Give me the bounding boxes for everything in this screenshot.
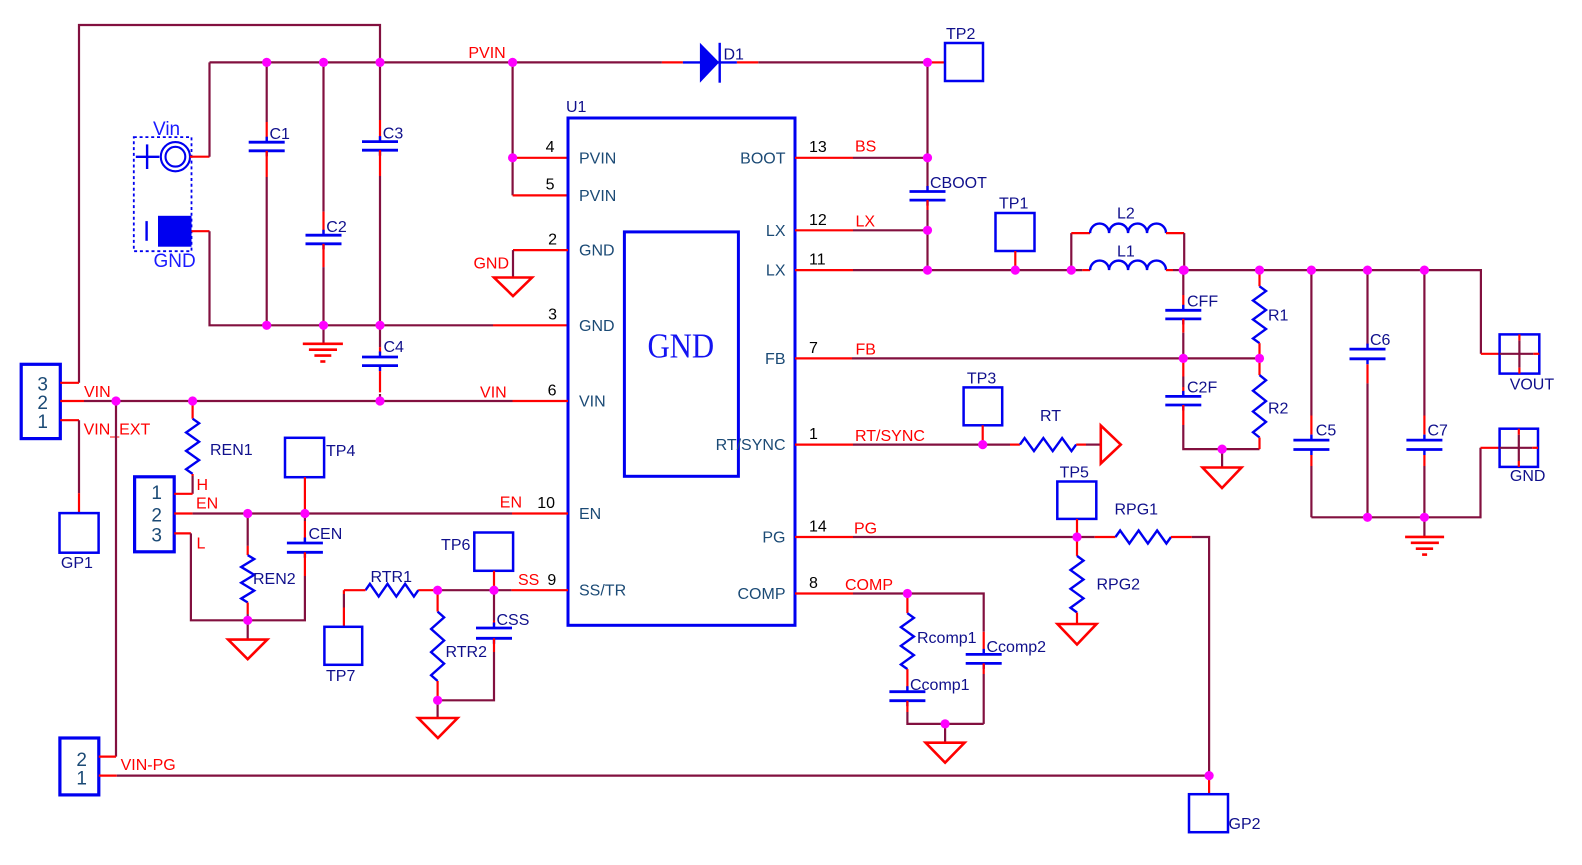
svg-text:1: 1 bbox=[37, 412, 48, 433]
svg-text:U1: U1 bbox=[566, 99, 587, 116]
svg-text:TP3: TP3 bbox=[967, 371, 996, 388]
svg-text:12: 12 bbox=[809, 212, 827, 229]
resistor RTR2 bbox=[437, 590, 439, 611]
wire Vin+ to PVIN bbox=[208, 62, 210, 156]
svg-text:5: 5 bbox=[546, 177, 555, 194]
svg-text:Vin: Vin bbox=[153, 119, 180, 140]
junction (266.7,325.3) bbox=[262, 321, 271, 330]
wire COMP to Ccomp2 branch bbox=[907, 594, 983, 632]
wire pin3 to outer loop bbox=[60, 382, 79, 384]
junction (927.5,157.8) bbox=[923, 153, 932, 162]
svg-text:8: 8 bbox=[809, 575, 818, 592]
svg-text:GND: GND bbox=[473, 256, 509, 273]
connector VIN-PG 2-pin bbox=[60, 738, 99, 795]
svg-text:TP5: TP5 bbox=[1060, 465, 1089, 482]
svg-text:COMP: COMP bbox=[738, 586, 786, 603]
wire Vin+ stub bbox=[190, 156, 210, 158]
pin 10 EN stub + label bbox=[512, 512, 568, 514]
svg-text:GND: GND bbox=[647, 328, 714, 366]
svg-text:C1: C1 bbox=[270, 126, 291, 143]
ground triangle under REN2 bbox=[247, 620, 249, 639]
junction (247.7,620.3) bbox=[243, 616, 252, 625]
wire Vin- down to gnd rail bbox=[210, 231, 494, 325]
wire RTR1 left to TP7 bbox=[343, 590, 345, 594]
Vin plus terminal bbox=[136, 156, 160, 158]
svg-text:VIN: VIN bbox=[84, 384, 111, 401]
pin 12 LX stub + net bbox=[795, 229, 853, 231]
svg-text:Ccomp2: Ccomp2 bbox=[987, 639, 1047, 656]
svg-text:1: 1 bbox=[809, 426, 818, 443]
capacitor Ccomp2 bbox=[983, 632, 985, 655]
svg-text:CEN: CEN bbox=[309, 526, 343, 543]
wire VOUT main rail bbox=[1184, 270, 1481, 354]
wire pin3 L to bottom rail bbox=[174, 532, 191, 534]
svg-text:C2F: C2F bbox=[1187, 380, 1217, 397]
svg-text:GP2: GP2 bbox=[1229, 816, 1261, 833]
svg-text:COMP: COMP bbox=[845, 577, 893, 594]
svg-text:14: 14 bbox=[809, 519, 827, 536]
capacitor C4 bbox=[379, 325, 381, 347]
junction (380,401) bbox=[375, 396, 384, 405]
wire top outer loop bbox=[79, 25, 380, 383]
svg-text:PG: PG bbox=[762, 530, 785, 547]
capacitor CBOOT bbox=[926, 158, 928, 187]
junction (494,590.2) bbox=[489, 586, 498, 595]
svg-text:FB: FB bbox=[765, 351, 785, 368]
connector EN 3-pin bbox=[135, 477, 175, 552]
svg-text:R1: R1 bbox=[1268, 308, 1289, 325]
svg-text:TP2: TP2 bbox=[946, 26, 975, 43]
junction (1424.4,517.3) bbox=[1420, 513, 1429, 522]
wire Vin- stub bbox=[192, 230, 210, 232]
svg-text:RPG2: RPG2 bbox=[1097, 577, 1141, 594]
svg-text:LX: LX bbox=[856, 214, 876, 231]
svg-text:4: 4 bbox=[546, 139, 555, 156]
pin 14 PG stub + net bbox=[795, 536, 853, 538]
wire VIN-PG line bbox=[99, 774, 117, 776]
testpoint GP1 bbox=[60, 513, 99, 553]
ground earth under C2 bbox=[322, 325, 324, 344]
svg-text:RT: RT bbox=[1040, 408, 1061, 425]
junction (1259.5,358.4) bbox=[1255, 354, 1264, 363]
svg-text:VIN-PG: VIN-PG bbox=[121, 757, 176, 774]
capacitor C7 bbox=[1423, 270, 1425, 415]
svg-text:2: 2 bbox=[548, 232, 557, 249]
pin 1 RT/SYNC stub + net bbox=[795, 444, 853, 446]
wire pin4 stub bbox=[513, 157, 568, 159]
wire VIN to VIN-PG vertical bbox=[115, 401, 117, 757]
svg-text:TP6: TP6 bbox=[441, 537, 470, 554]
wire vertical to pins 4/5 bbox=[511, 62, 513, 195]
svg-text:6: 6 bbox=[548, 382, 557, 399]
junction (380,62.4) bbox=[375, 58, 384, 67]
junction (982.7,444.6) bbox=[978, 440, 987, 449]
svg-text:C5: C5 bbox=[1316, 423, 1337, 440]
svg-text:C2: C2 bbox=[326, 219, 347, 236]
wire pin1 VIN_EXT to GP1 bbox=[60, 419, 79, 421]
resistor RT bbox=[1010, 444, 1020, 446]
junction (512.6,157.8) bbox=[508, 153, 517, 162]
junction (1071.3,270.1) bbox=[1067, 266, 1076, 275]
pin 7 FB stub + net bbox=[795, 357, 852, 359]
junction (1424.4,270.1) bbox=[1420, 266, 1429, 275]
svg-text:PVIN: PVIN bbox=[579, 188, 616, 205]
resistor RTR1 bbox=[418, 589, 437, 591]
svg-text:9: 9 bbox=[547, 572, 556, 589]
pin 11 LX stub + wire to inductors bbox=[795, 269, 853, 271]
junction (945.1,723.9) bbox=[941, 719, 950, 728]
svg-text:FB: FB bbox=[856, 341, 876, 358]
svg-text:REN1: REN1 bbox=[210, 442, 253, 459]
wire PVIN rail bbox=[210, 61, 662, 63]
junction (116,401) bbox=[111, 396, 120, 405]
U1 inner GND box bbox=[624, 232, 738, 476]
junction (380,325.3) bbox=[375, 321, 384, 330]
svg-text:EN: EN bbox=[579, 506, 601, 523]
capacitor C6 bbox=[1366, 270, 1368, 343]
svg-text:H: H bbox=[197, 477, 209, 494]
capacitor C2F bbox=[1182, 358, 1184, 376]
resistor RPG1 bbox=[1095, 536, 1116, 538]
svg-text:C3: C3 bbox=[383, 126, 404, 143]
junction (1077,537) bbox=[1072, 532, 1081, 541]
connector GND output bbox=[1481, 447, 1500, 449]
svg-text:GND: GND bbox=[1510, 468, 1546, 485]
svg-text:PVIN: PVIN bbox=[468, 45, 505, 62]
svg-text:TP1: TP1 bbox=[999, 196, 1028, 213]
svg-text:3: 3 bbox=[151, 526, 162, 547]
ground earth under C7 bbox=[1423, 517, 1425, 537]
svg-text:D1: D1 bbox=[724, 46, 745, 63]
wire TP2 junction down to BOOT bbox=[926, 62, 928, 157]
svg-text:11: 11 bbox=[809, 252, 826, 269]
ground triangle under comp rail bbox=[944, 724, 946, 742]
junction (927.5,270.1) bbox=[923, 266, 932, 275]
net arrow RT/SYNC off-page bbox=[1101, 426, 1121, 464]
svg-text:BS: BS bbox=[855, 139, 876, 156]
svg-text:GND: GND bbox=[579, 318, 615, 335]
svg-text:GND: GND bbox=[579, 243, 615, 260]
resistor R1 bbox=[1258, 270, 1260, 286]
connector J Vin port dotted box bbox=[134, 137, 192, 251]
svg-text:RT/SYNC: RT/SYNC bbox=[855, 428, 925, 445]
junction (1183.3,270.1) bbox=[1179, 266, 1188, 275]
junction (512.6,62.4) bbox=[508, 58, 517, 67]
junction (304.9,513.5) bbox=[300, 509, 309, 518]
wire output ground rail bbox=[1311, 448, 1480, 518]
capacitor CSS bbox=[493, 590, 495, 620]
inductor L1 bbox=[1082, 269, 1090, 271]
junction (907.4,593.5) bbox=[903, 589, 912, 598]
svg-text:LX: LX bbox=[766, 223, 786, 240]
svg-text:GND: GND bbox=[154, 251, 196, 272]
testpoint TP7 bbox=[324, 627, 362, 665]
capacitor Ccomp1 bbox=[906, 686, 908, 692]
svg-text:CBOOT: CBOOT bbox=[930, 175, 987, 192]
wire LX12 to LX11 bbox=[926, 230, 928, 270]
svg-text:10: 10 bbox=[537, 495, 555, 512]
ground triangle under C2F rail bbox=[1221, 449, 1223, 467]
ground triangle at pin2 bbox=[494, 278, 532, 297]
svg-text:C4: C4 bbox=[384, 339, 405, 356]
svg-text:Ccomp1: Ccomp1 bbox=[910, 677, 970, 694]
junction (247.7,513.5) bbox=[243, 509, 252, 518]
testpoint TP3 bbox=[964, 387, 1003, 425]
svg-text:1: 1 bbox=[76, 769, 87, 790]
junction (192.6,401) bbox=[188, 396, 197, 405]
wire pin3 stub red bbox=[493, 324, 568, 326]
capacitor C3 bbox=[379, 62, 381, 120]
capacitor C2 bbox=[322, 62, 324, 211]
resistor REN2 bbox=[247, 514, 249, 546]
capacitor CEN bbox=[304, 514, 306, 522]
wire VIN line bbox=[60, 400, 84, 402]
junction (266.7,62.4) bbox=[262, 58, 271, 67]
junction (1222.1,449.1) bbox=[1218, 445, 1227, 454]
svg-text:7: 7 bbox=[809, 340, 818, 357]
svg-text:L2: L2 bbox=[1117, 206, 1135, 223]
svg-text:SS/TR: SS/TR bbox=[579, 583, 626, 600]
svg-text:VIN: VIN bbox=[480, 384, 507, 401]
junction (927.5,230.3) bbox=[923, 226, 932, 235]
testpoint TP1 bbox=[996, 213, 1035, 251]
junction (1209.1,775.6) bbox=[1205, 771, 1214, 780]
op-amp U1 ic body bbox=[568, 118, 795, 625]
svg-text:SS: SS bbox=[518, 572, 539, 589]
Vin minus terminal bbox=[145, 221, 147, 241]
svg-text:13: 13 bbox=[809, 139, 827, 156]
pin 2 GND net stub bbox=[513, 249, 568, 251]
resistor REN1 bbox=[192, 401, 194, 419]
resistor Rcomp1 bbox=[906, 594, 908, 614]
svg-text:EN: EN bbox=[196, 496, 218, 513]
svg-text:RT/SYNC: RT/SYNC bbox=[716, 437, 786, 454]
pin 13 BOOT stub + BS net bbox=[795, 157, 853, 159]
svg-text:TP4: TP4 bbox=[326, 443, 355, 460]
wire pin1 H stub bbox=[174, 493, 192, 495]
svg-text:Rcomp1: Rcomp1 bbox=[917, 630, 977, 647]
svg-text:PVIN: PVIN bbox=[579, 150, 616, 167]
svg-text:REN2: REN2 bbox=[253, 571, 296, 588]
connector VIN 3-pin bbox=[21, 364, 60, 438]
junction (1311.4,270.1) bbox=[1307, 266, 1316, 275]
capacitor C5 bbox=[1310, 270, 1312, 415]
svg-text:3: 3 bbox=[548, 307, 557, 324]
resistor R2 bbox=[1258, 358, 1260, 375]
junction (1183.3,358.4) bbox=[1179, 354, 1188, 363]
capacitor CFF bbox=[1182, 270, 1184, 295]
pin 8 COMP stub + net bbox=[795, 592, 853, 594]
wire EN line bbox=[174, 512, 192, 514]
junction (437.6,590.2) bbox=[433, 586, 442, 595]
junction (1367.5,517.3) bbox=[1363, 513, 1372, 522]
svg-text:EN: EN bbox=[500, 495, 522, 512]
svg-text:CSS: CSS bbox=[497, 612, 530, 629]
svg-text:L1: L1 bbox=[1117, 244, 1135, 261]
svg-text:L: L bbox=[197, 536, 206, 553]
svg-text:C6: C6 bbox=[1370, 332, 1391, 349]
wire pin5 stub bbox=[513, 194, 568, 196]
junction (1015.3,270.1) bbox=[1011, 266, 1020, 275]
ground triangle under RPG2 bbox=[1058, 624, 1097, 645]
testpoint TP2 bbox=[931, 61, 945, 63]
inductor L2 parallel branch bbox=[1070, 233, 1072, 270]
svg-text:TP7: TP7 bbox=[326, 668, 355, 685]
testpoint GP2 bbox=[1208, 776, 1210, 795]
connector VOUT bbox=[1481, 353, 1500, 355]
resistor RPG2 bbox=[1076, 537, 1078, 556]
svg-text:RTR2: RTR2 bbox=[446, 644, 488, 661]
capacitor C1 bbox=[266, 62, 268, 122]
svg-text:PG: PG bbox=[854, 521, 877, 538]
junction (323.5,62.4) bbox=[319, 58, 328, 67]
svg-text:C7: C7 bbox=[1428, 423, 1449, 440]
testpoint TP4 bbox=[285, 438, 324, 477]
diode D1 bbox=[662, 61, 683, 63]
svg-text:CFF: CFF bbox=[1187, 294, 1218, 311]
svg-text:RTR1: RTR1 bbox=[371, 569, 413, 586]
svg-text:1: 1 bbox=[151, 483, 162, 504]
junction (437.6,700.3) bbox=[433, 696, 442, 705]
svg-text:VOUT: VOUT bbox=[1510, 377, 1555, 394]
wire RPG1 to VIN-PG bbox=[1192, 537, 1209, 776]
junction (1184.2,270.1) bbox=[1180, 266, 1189, 275]
svg-text:LX: LX bbox=[766, 263, 786, 280]
junction (1259.5,270.1) bbox=[1255, 266, 1264, 275]
svg-text:GP1: GP1 bbox=[61, 555, 93, 572]
testpoint TP5 bbox=[1057, 482, 1096, 519]
wire pin2 stub bbox=[99, 755, 116, 757]
svg-text:2: 2 bbox=[151, 506, 162, 527]
testpoint TP6 bbox=[474, 533, 513, 571]
junction (1367.5,270.1) bbox=[1363, 266, 1372, 275]
pin 6 VIN stub + label bbox=[513, 400, 569, 402]
svg-text:RPG1: RPG1 bbox=[1115, 502, 1159, 519]
ground triangle under RTR2 bbox=[437, 700, 439, 717]
svg-text:R2: R2 bbox=[1268, 401, 1289, 418]
pin 9 SS stub + label bbox=[511, 589, 568, 591]
svg-text:VIN: VIN bbox=[579, 394, 606, 411]
junction (927.5,62.4) bbox=[923, 58, 932, 67]
svg-text:2: 2 bbox=[37, 393, 48, 414]
junction (323.5,325.3) bbox=[319, 321, 328, 330]
svg-text:BOOT: BOOT bbox=[740, 150, 786, 167]
wire SS line bbox=[438, 589, 512, 591]
